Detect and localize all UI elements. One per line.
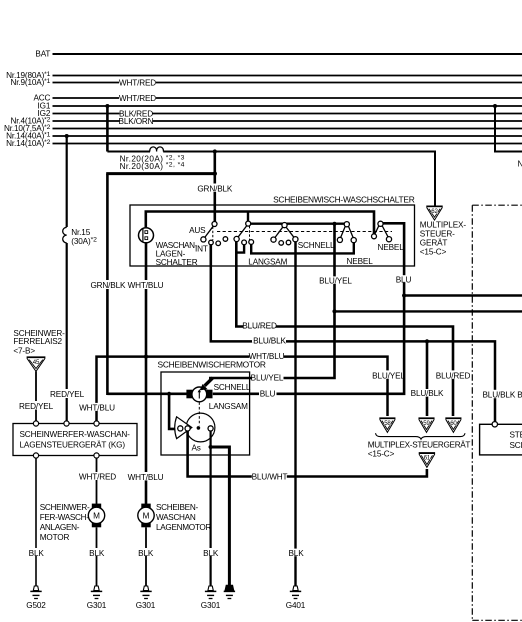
svg-text:Nr.15: Nr.15 xyxy=(71,228,90,237)
svg-text:LAGENMOTOR: LAGENMOTOR xyxy=(156,523,211,532)
svg-text:BLK/ORN: BLK/ORN xyxy=(119,117,154,126)
svg-text:BLU/RED: BLU/RED xyxy=(436,372,471,381)
svg-text:SCHEIBEN-: SCHEIBEN- xyxy=(156,503,198,512)
svg-text:BLU/RED: BLU/RED xyxy=(242,322,277,331)
svg-text:BLU/BLK: BLU/BLK xyxy=(411,389,444,398)
node junction BLU/YEL tap xyxy=(333,222,337,226)
svg-text:SCHNELL: SCHNELL xyxy=(214,383,251,392)
ground G301 a xyxy=(87,586,107,610)
wire SCHNELL ground to G401 xyxy=(294,266,296,587)
wire thick link y173.6 xyxy=(106,172,215,175)
svg-text:Nr: Nr xyxy=(518,159,522,168)
wire GRN/BLK drop into switch box xyxy=(197,149,233,222)
node junction IG1 x495 xyxy=(493,104,497,108)
svg-text:WHT/BLU: WHT/BLU xyxy=(128,473,164,482)
label WHT/BLU at washer motor xyxy=(128,472,164,482)
svg-text:MULTIPLEX-: MULTIPLEX- xyxy=(420,221,467,230)
switch NEBEL right xyxy=(372,221,405,252)
svg-text:GRN/BLK: GRN/BLK xyxy=(90,281,126,290)
box STEUERGERAET right edge xyxy=(480,424,522,455)
svg-text:NEBEL: NEBEL xyxy=(347,257,374,266)
svg-text:As: As xyxy=(192,443,201,452)
svg-text:BLK: BLK xyxy=(138,549,154,558)
node junction cam ground branch xyxy=(209,445,213,449)
wire BLU/BLK branch to triangle 59 xyxy=(411,341,444,416)
label BLU/BLK BL right edge xyxy=(481,390,522,400)
svg-text:LAGENSTEUERGERÄT (KG): LAGENSTEUERGERÄT (KG) xyxy=(20,440,126,450)
connector triangle 58 xyxy=(379,418,395,432)
label BLU/RED at triangle 60 xyxy=(436,370,471,380)
wire Nr.4(10A) bus BLK/ORN xyxy=(10,117,522,126)
svg-text:MULTIPLEX-STEUERGERÄT: MULTIPLEX-STEUERGERÄT xyxy=(368,439,471,449)
svg-text:BLU: BLU xyxy=(396,275,412,284)
fuse Nr.15(30A) on x66 wire xyxy=(63,136,97,246)
svg-text:BLK: BLK xyxy=(203,549,219,558)
svg-text:<15-C>: <15-C> xyxy=(420,248,447,257)
motor SCHEINWERFER-WASCHANLAGENMOTOR xyxy=(40,503,105,542)
svg-text:BLK: BLK xyxy=(29,549,45,558)
svg-text:G301: G301 xyxy=(87,601,107,610)
svg-text:GERÄT: GERÄT xyxy=(420,238,448,248)
ground G301 c xyxy=(201,586,221,610)
svg-text:ANLAGEN-: ANLAGEN- xyxy=(40,523,80,532)
svg-text:60: 60 xyxy=(450,420,457,427)
wire in-box pivot bus y223.7 xyxy=(248,222,347,224)
wire KG to G502 xyxy=(29,458,45,587)
pin terminal right box xyxy=(492,422,497,427)
wire motor to G301 xyxy=(89,527,105,586)
svg-text:G401: G401 xyxy=(286,601,306,610)
label MULTIPLEX-STEUERGERAET 15-C bottom xyxy=(368,439,471,458)
svg-text:62: 62 xyxy=(431,208,438,215)
cam switch As xyxy=(175,402,215,452)
svg-text:<7-B>: <7-B> xyxy=(13,347,35,356)
wire BLU from switch xyxy=(213,275,413,399)
ground G301 b xyxy=(136,586,156,610)
wire IG2 bus BLK/RED xyxy=(38,109,522,118)
dash-dot harness boundary xyxy=(472,205,522,620)
svg-text:SCHEIBENWISCH-WASCHSCHALTER: SCHEIBENWISCH-WASCHSCHALTER xyxy=(273,195,415,205)
svg-text:RED/YEL: RED/YEL xyxy=(19,402,54,411)
wire BLU/RED from switch xyxy=(236,266,453,416)
svg-text:FER-WASCH-: FER-WASCH- xyxy=(40,513,90,522)
switch SCHNELL xyxy=(271,223,335,267)
wire BLU/BLK from switch xyxy=(211,266,495,422)
ground solid xyxy=(224,585,235,598)
svg-text:WASCHAN: WASCHAN xyxy=(156,513,196,522)
svg-text:FERRELAIS2: FERRELAIS2 xyxy=(13,337,62,346)
svg-text:GRN/BLK: GRN/BLK xyxy=(197,184,233,193)
motor box SCHEIBENWISCHERMOTOR xyxy=(158,359,266,455)
svg-text:SCHEIBENWISCHERMOTOR: SCHEIBENWISCHERMOTOR xyxy=(158,359,266,369)
wire BAT bus xyxy=(35,50,522,59)
svg-text:SCHNELL: SCHNELL xyxy=(298,241,335,250)
wire BLU/YEL from switch xyxy=(209,224,352,378)
svg-text:WHT/RED: WHT/RED xyxy=(79,473,116,482)
pin terminals KG top xyxy=(33,421,99,426)
svg-text:WHT/RED: WHT/RED xyxy=(119,94,156,103)
connector triangle 59 xyxy=(418,418,434,432)
wire Nr.19(80A) bus xyxy=(6,71,522,80)
wire IG1 bus xyxy=(38,102,522,111)
connector triangle 61 xyxy=(419,453,435,467)
ground G401 xyxy=(286,586,306,610)
svg-text:STE: STE xyxy=(510,431,522,440)
svg-text:G301: G301 xyxy=(136,601,156,610)
svg-text:<15-C>: <15-C> xyxy=(368,450,395,459)
washer pump switch WASCHANLAGENSCHALTER xyxy=(139,228,198,267)
svg-text:BLK: BLK xyxy=(89,549,105,558)
svg-text:BLU/YEL: BLU/YEL xyxy=(372,372,405,381)
svg-text:INT: INT xyxy=(195,245,208,254)
svg-text:LAGEN-: LAGEN- xyxy=(156,249,186,258)
wire Nr.14(10A) bus xyxy=(6,139,522,148)
node junction WHT/BLU xyxy=(144,355,148,359)
brace multiplex xyxy=(376,433,466,439)
svg-text:BLU/YEL: BLU/YEL xyxy=(319,277,352,286)
wire ACC bus WHT/RED xyxy=(33,94,522,103)
svg-text:58: 58 xyxy=(384,420,391,427)
svg-text:59: 59 xyxy=(423,420,430,427)
switch NEBEL left xyxy=(337,222,373,266)
wire WHT/RED KG to headlight washer motor xyxy=(79,458,116,504)
svg-text:M: M xyxy=(93,512,100,521)
svg-text:45: 45 xyxy=(33,359,40,366)
wire in-box top feed bus xyxy=(146,212,374,235)
node junction motor low-speed tap xyxy=(167,392,171,396)
pin terminals KG bottom xyxy=(33,453,99,458)
svg-text:WHT/RED: WHT/RED xyxy=(119,78,156,87)
switch mechanical dashed link xyxy=(217,231,392,233)
wire Nr.10(7,5A) bus xyxy=(4,124,522,133)
label BLU/WHT xyxy=(252,472,288,482)
connector triangle 45 xyxy=(27,357,46,371)
KG box SCHEINWERFER-WASCHANLAGENSTEUERGERAET xyxy=(13,424,137,456)
svg-text:SCHEINWER-: SCHEINWER- xyxy=(40,503,90,512)
svg-text:WHT/BLU: WHT/BLU xyxy=(79,403,115,412)
switch box SCHEIBENWISCH-WASCHSCHALTER xyxy=(130,195,415,267)
wire Nr.9(10A) bus WHT/RED xyxy=(10,78,522,87)
svg-text:STEUER-: STEUER- xyxy=(420,230,455,239)
wire washer motor to G301 xyxy=(138,527,154,586)
node junction Nr.14(40A) x66 xyxy=(65,134,69,138)
node junction BLU branch xyxy=(402,293,406,297)
svg-text:M: M xyxy=(143,512,150,521)
svg-text:MOTOR: MOTOR xyxy=(40,533,70,542)
svg-text:BAT: BAT xyxy=(35,50,50,59)
connector triangle 60 xyxy=(445,418,461,432)
fuse Nr.20 xyxy=(120,147,185,171)
svg-text:BLU/BLK BL: BLU/BLK BL xyxy=(483,390,522,399)
wire fused feed line with fuse Nr.20 to triangle 62 xyxy=(107,152,435,206)
svg-text:RED/YEL: RED/YEL xyxy=(50,390,85,399)
svg-text:BLU: BLU xyxy=(260,390,276,399)
motor SCHEIBENWASCHANLAGENMOTOR xyxy=(138,503,212,532)
svg-text:G502: G502 xyxy=(26,601,46,610)
wire WHT/BLU washer feed below box xyxy=(128,243,164,504)
svg-text:BLU/WHT: BLU/WHT xyxy=(252,473,288,482)
wire GRN/BLK vertical from IG1 down to motor xyxy=(90,106,126,395)
wire drop to LANGSAM fixed contact xyxy=(247,212,249,223)
wire SCHNELL brush arrow xyxy=(200,378,251,411)
wire G401 BLK label xyxy=(288,549,304,558)
node junction BLU/YEL branch xyxy=(332,309,336,313)
switch AUS/INT xyxy=(189,222,228,267)
svg-text:BLK: BLK xyxy=(288,549,304,558)
wire Nr.14(40A) bus xyxy=(6,132,522,141)
switch LANGSAM xyxy=(234,221,354,267)
svg-text:BLU/BLK: BLU/BLK xyxy=(253,337,286,346)
svg-text:WHT/BLU: WHT/BLU xyxy=(128,281,164,290)
svg-text:LANGSAM: LANGSAM xyxy=(209,402,248,411)
connector triangle 62 xyxy=(426,206,442,220)
wire motor to cam contact xyxy=(169,394,176,429)
wire BLU/YEL branch to right edge xyxy=(335,310,522,312)
wire NEBEL pivot to BLU corner xyxy=(381,223,405,275)
wire BLU branch to right edge xyxy=(404,294,522,296)
node junction IG1 x107 xyxy=(105,104,109,108)
svg-text:NEBEL: NEBEL xyxy=(378,243,405,252)
wire RED/YEL x66 to KG box xyxy=(50,243,85,422)
label BLU/YEL on motor feed xyxy=(251,372,284,382)
svg-text:AUS: AUS xyxy=(189,226,206,235)
svg-text:61: 61 xyxy=(424,455,431,462)
wire WHT/BLU horizontal to KG and triangle 58 xyxy=(79,350,405,421)
svg-text:BLU/YEL: BLU/YEL xyxy=(251,374,284,383)
relay label SCHEINWERFER-FERRELAIS2 xyxy=(13,329,65,355)
node junction BLU/BLK branch xyxy=(425,339,429,343)
wire cam right contact to grounds xyxy=(203,431,219,587)
ground G502 xyxy=(26,586,46,610)
wire branch to solid ground xyxy=(211,447,230,589)
wire RED/YEL from triangle 45 to KG xyxy=(19,371,54,421)
label MULTIPLEX-STEUERGERAET 15-C top xyxy=(420,221,467,257)
svg-text:LANGSAM: LANGSAM xyxy=(248,258,287,267)
wiper motor symbol xyxy=(107,387,212,402)
svg-text:SCH: SCH xyxy=(510,441,522,450)
svg-text:SCHEINWERFER-WASCHAN-: SCHEINWERFER-WASCHAN- xyxy=(20,430,131,439)
svg-text:Nr.14(10A)*2: Nr.14(10A)*2 xyxy=(6,139,51,148)
svg-text:SCHALTER: SCHALTER xyxy=(156,258,198,267)
wire cam to BLU/WHT xyxy=(188,431,427,477)
svg-text:G301: G301 xyxy=(201,601,221,610)
wire IG1 branch right x495 xyxy=(495,106,522,152)
